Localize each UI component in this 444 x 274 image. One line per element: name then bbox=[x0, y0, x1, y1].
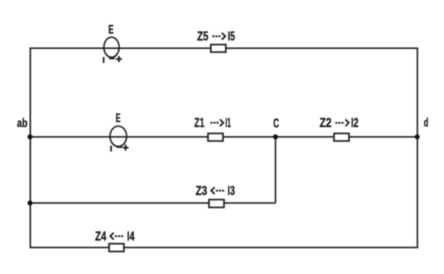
svg-text:I4: I4 bbox=[127, 228, 135, 243]
svg-text:C: C bbox=[273, 116, 279, 130]
svg-text:d: d bbox=[424, 118, 429, 130]
svg-text:ab: ab bbox=[17, 118, 28, 130]
svg-text:I2: I2 bbox=[351, 115, 359, 130]
svg-text:Z1: Z1 bbox=[194, 115, 204, 130]
svg-text:I5: I5 bbox=[228, 28, 235, 43]
svg-text:E: E bbox=[108, 23, 113, 37]
svg-text:I3: I3 bbox=[228, 183, 235, 198]
svg-text:I1: I1 bbox=[225, 115, 230, 130]
svg-text:Z2: Z2 bbox=[320, 115, 332, 130]
svg-text:Z4: Z4 bbox=[95, 228, 107, 243]
svg-text:E: E bbox=[116, 111, 121, 125]
svg-text:Z5: Z5 bbox=[197, 28, 208, 43]
svg-text:Z3: Z3 bbox=[196, 183, 208, 198]
